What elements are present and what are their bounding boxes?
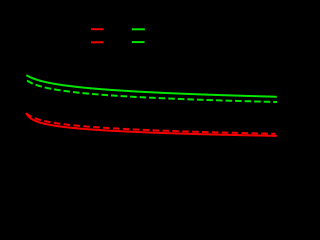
green solid curve bbox=[26, 75, 276, 97]
red solid curve bbox=[26, 113, 277, 136]
green dashed curve bbox=[27, 81, 277, 103]
red dashed curve bbox=[26, 113, 275, 134]
legend red dashed sample bbox=[91, 41, 103, 43]
legend green dashed sample bbox=[132, 41, 145, 43]
legend green solid sample bbox=[132, 28, 145, 30]
legend red solid sample bbox=[91, 28, 103, 30]
